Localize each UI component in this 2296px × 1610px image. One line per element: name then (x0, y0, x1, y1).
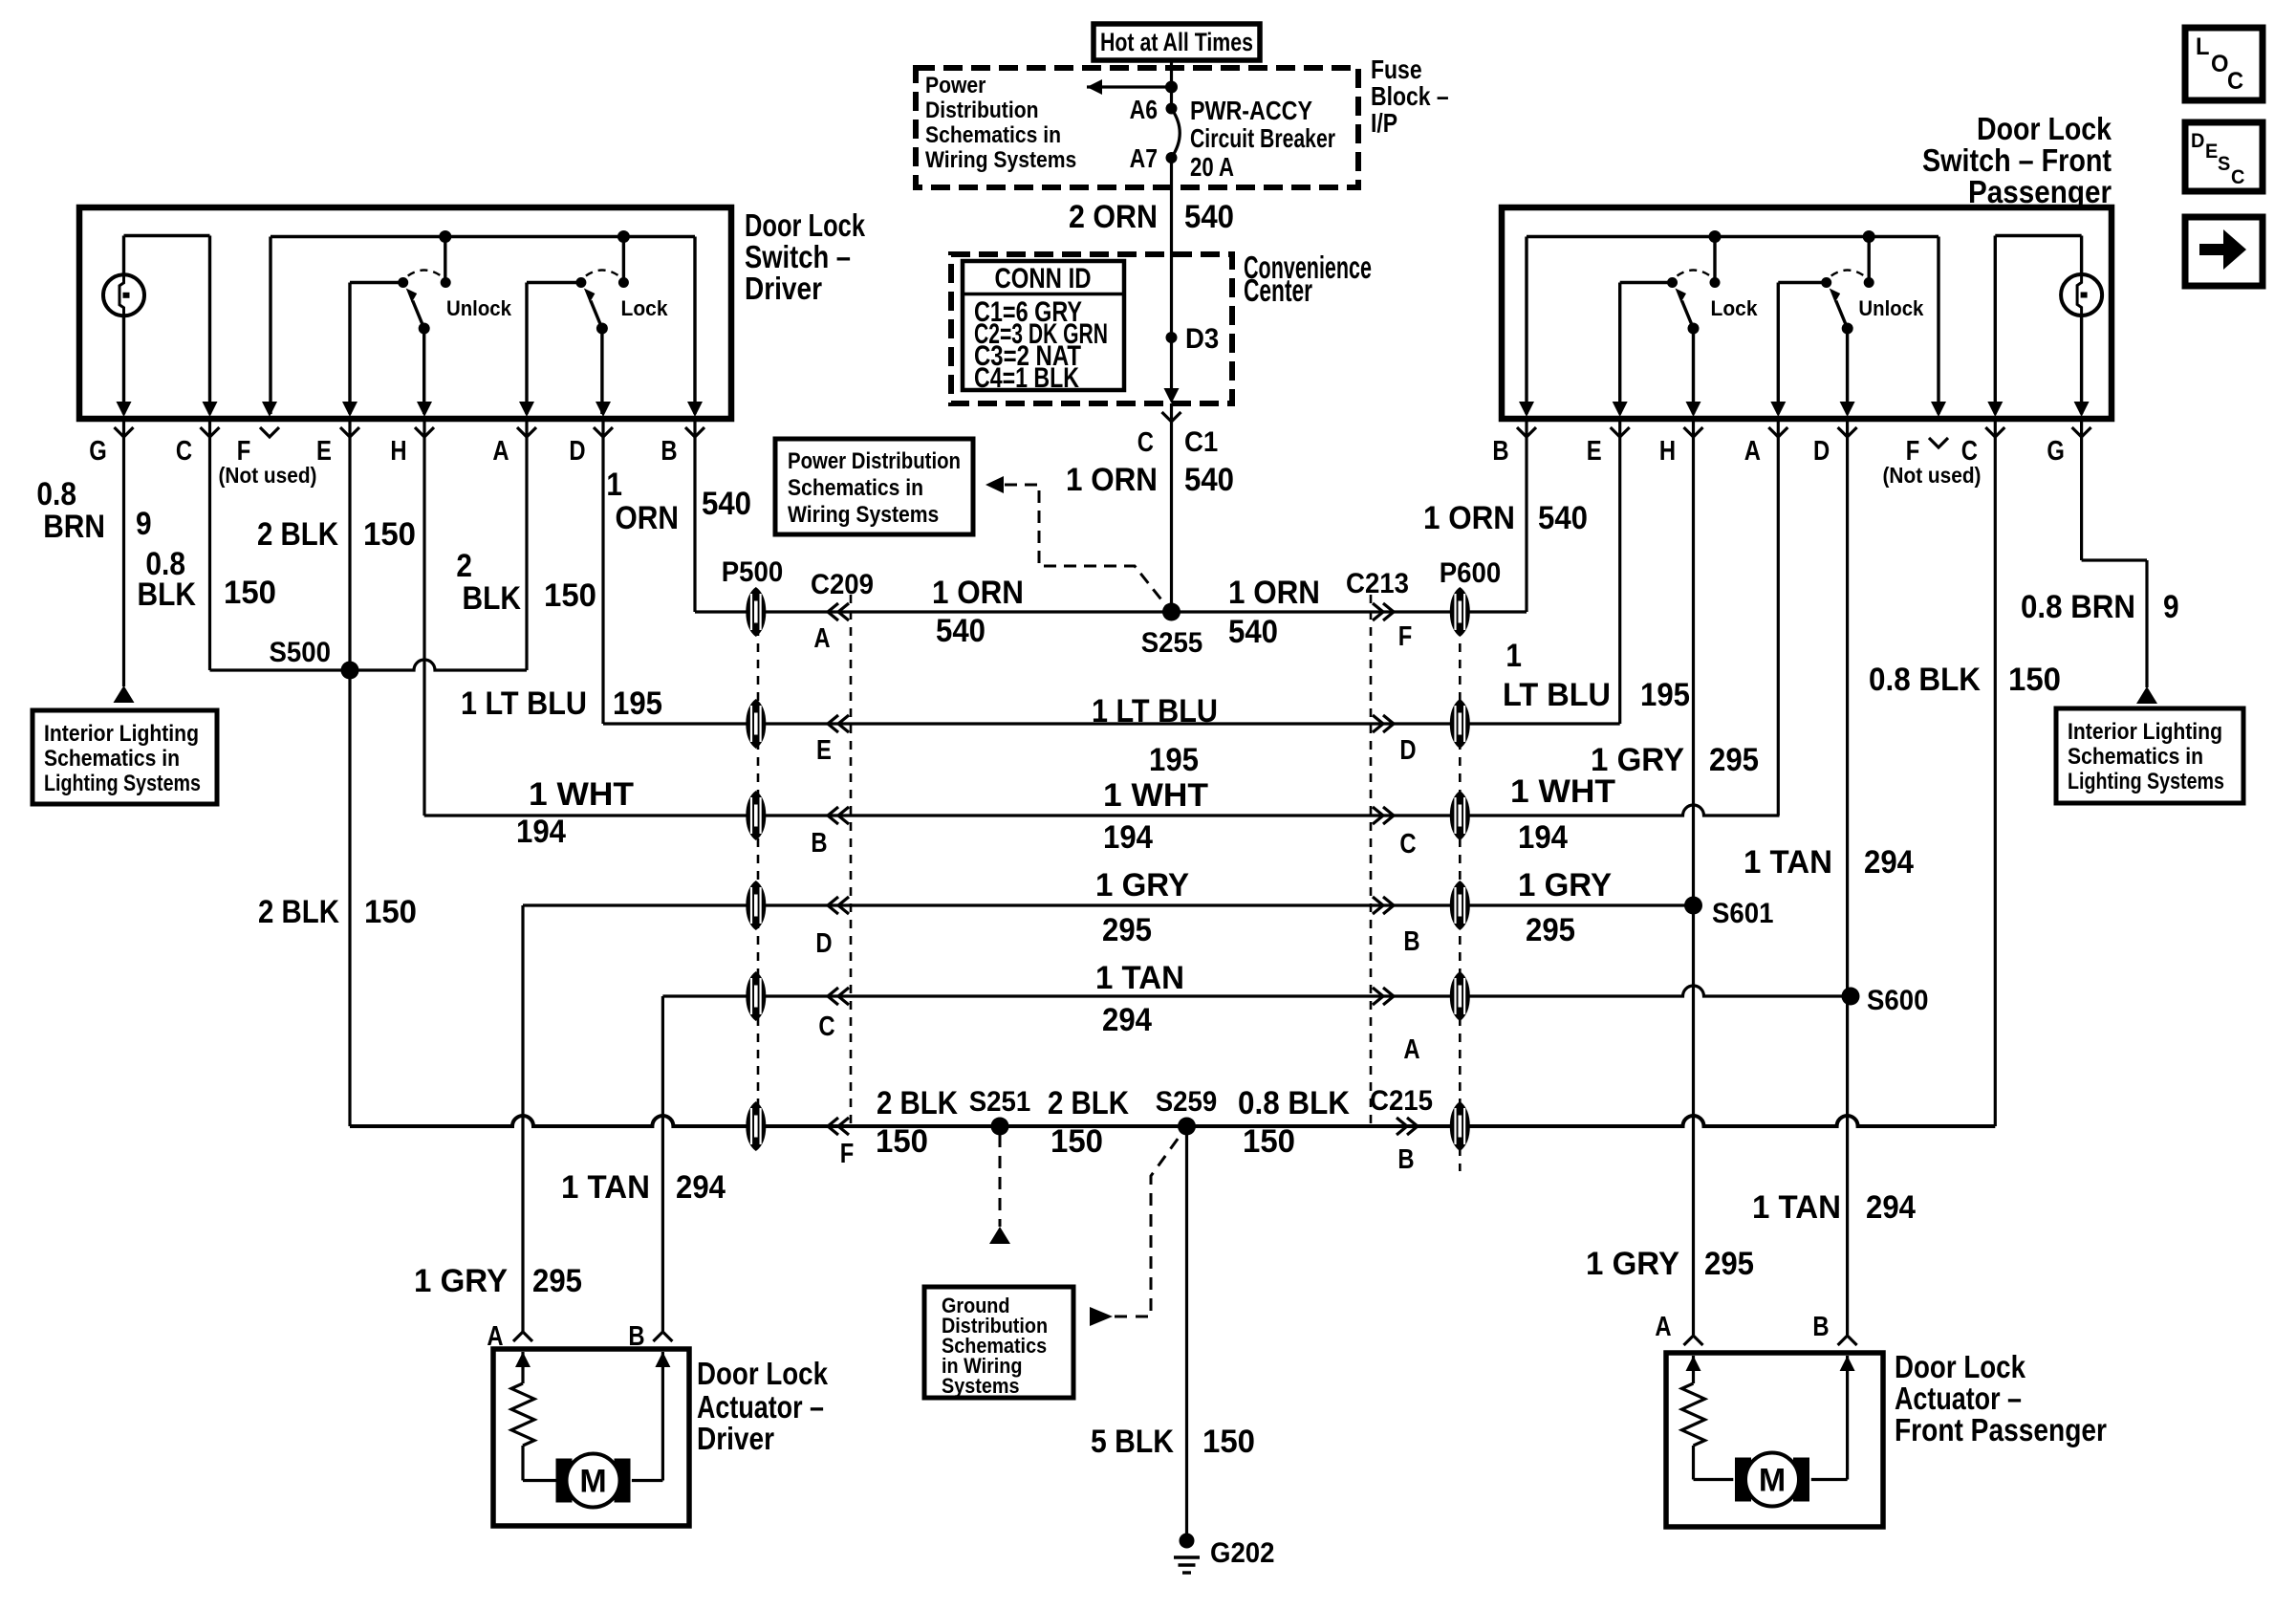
pin chevron A (517, 427, 536, 437)
C213 arrows row2 (1383, 715, 1394, 732)
wire 0.8 BRN 9 (122, 422, 125, 686)
connector P500 row6 (746, 1101, 766, 1151)
svg-text:194: 194 (516, 814, 566, 850)
svg-text:S255: S255 (1141, 627, 1203, 659)
svg-text:S600: S600 (1867, 985, 1929, 1016)
svg-text:A: A (492, 436, 509, 467)
splice S255 (1162, 603, 1180, 621)
pin chevron B actuator right (1838, 1336, 1857, 1345)
svg-text:Schematics in: Schematics in (925, 122, 1061, 148)
wire pin H down to WHT row (422, 422, 425, 816)
ground bus 2 BLK 150 (350, 1116, 1995, 1126)
wire B inside right (1846, 1356, 1849, 1480)
pin chevron C right (1985, 427, 2004, 437)
svg-text:540: 540 (1184, 462, 1234, 498)
pin arrow A inside (515, 1352, 531, 1367)
svg-text:E: E (1587, 436, 1602, 467)
svg-text:S259: S259 (1156, 1086, 1218, 1118)
pin chevron D (594, 427, 613, 437)
svg-text:E: E (316, 436, 332, 467)
svg-text:C: C (1137, 427, 1154, 458)
wire 0.8 BRN right (2080, 422, 2083, 560)
svg-text:A: A (1403, 1034, 1419, 1065)
pin arrow A driver switch (519, 402, 534, 417)
unlock switch arm right (1821, 271, 1874, 335)
wire to pin C (208, 236, 211, 415)
Power Distribution reference box (775, 439, 973, 534)
svg-text:294: 294 (1866, 1189, 1916, 1226)
pin chevron A actuator (513, 1332, 532, 1341)
svg-text:150: 150 (224, 575, 276, 611)
C209 arrows row5 (828, 988, 838, 1005)
svg-text:F: F (840, 1139, 855, 1169)
svg-text:294: 294 (1864, 844, 1914, 881)
connector P500 row3 (746, 791, 766, 840)
svg-text:C: C (176, 436, 192, 467)
svg-text:S500: S500 (270, 637, 332, 668)
triangle to ground dist ref (989, 1227, 1010, 1244)
svg-text:Schematics in: Schematics in (2068, 744, 2203, 770)
svg-text:Lock: Lock (621, 296, 669, 320)
svg-text:Hot at All Times: Hot at All Times (1100, 28, 1253, 56)
svg-text:M: M (579, 1464, 606, 1500)
pin arrow E driver switch (342, 402, 357, 417)
svg-text:Power Distribution: Power Distribution (788, 448, 961, 474)
pin chevron D right (1838, 427, 1857, 437)
pin arrow H driver switch (417, 402, 432, 417)
svg-text:540: 540 (1538, 500, 1588, 536)
svg-text:P500: P500 (722, 556, 784, 588)
svg-text:194: 194 (1103, 819, 1153, 856)
bus junction unlock right (1863, 230, 1875, 243)
svg-text:2 BLK: 2 BLK (877, 1085, 958, 1121)
svg-text:D3: D3 (1185, 323, 1219, 355)
left box internal bus (271, 235, 695, 238)
pin arrow A passenger switch (1770, 402, 1786, 417)
wire arrow to power dist (1087, 85, 1172, 88)
svg-text:H: H (390, 436, 406, 467)
pin arrow G passenger switch (2074, 402, 2090, 417)
pin chevron B right (1517, 427, 1536, 437)
S500 horizontal wire (210, 660, 528, 670)
svg-text:D: D (569, 436, 585, 467)
svg-text:A7: A7 (1130, 143, 1158, 173)
svg-text:Unlock: Unlock (446, 296, 512, 320)
lamp wire pin G (122, 236, 125, 415)
svg-text:1 ORN: 1 ORN (932, 575, 1024, 611)
svg-text:Switch – Front: Switch – Front (1922, 142, 2112, 178)
lock pivot wire right (1620, 281, 1673, 284)
lamp top wire right (1995, 234, 2081, 237)
pin arrow C passenger switch (1987, 402, 2003, 417)
C215 arrows row6 (1407, 1118, 1418, 1135)
wire to pin D right (1846, 329, 1849, 415)
drop to lock contact right (1713, 237, 1716, 283)
svg-text:1 WHT: 1 WHT (1510, 773, 1615, 810)
svg-text:PWR-ACCY: PWR-ACCY (1190, 96, 1312, 125)
svg-text:295: 295 (1526, 912, 1575, 948)
lamp wire pin G right (2080, 236, 2083, 415)
lock switch arm (575, 271, 629, 335)
svg-text:S: S (2218, 153, 2230, 175)
arrow at conv center exit (1164, 388, 1180, 403)
svg-text:C215: C215 (1370, 1085, 1433, 1117)
wire to pin E (348, 283, 351, 415)
wire 5 BLK 150 to ground (1185, 1126, 1188, 1540)
svg-text:G: G (89, 436, 107, 467)
svg-text:150: 150 (2008, 662, 2061, 698)
svg-text:E: E (2205, 141, 2218, 163)
svg-text:1 WHT: 1 WHT (529, 776, 634, 813)
svg-text:M: M (1759, 1463, 1786, 1499)
svg-text:540: 540 (936, 613, 986, 649)
svg-text:A: A (813, 623, 830, 654)
splice S600 (1842, 988, 1860, 1006)
svg-text:B: B (661, 436, 677, 467)
svg-text:Lock: Lock (1711, 296, 1759, 320)
C209 arrows row3 (828, 807, 838, 824)
svg-text:Distribution: Distribution (925, 98, 1039, 123)
svg-text:Center: Center (1244, 272, 1312, 308)
wire pin A right down (1777, 422, 1780, 816)
wire through convenience center (1170, 254, 1173, 388)
svg-text:(Not used): (Not used) (219, 463, 317, 488)
C209 arrows row1 (828, 603, 838, 620)
arrow to power distribution (1087, 79, 1102, 95)
svg-text:Driver: Driver (697, 1421, 774, 1456)
svg-text:1 ORN: 1 ORN (1423, 500, 1515, 536)
svg-text:Schematics in: Schematics in (788, 475, 923, 501)
wire to motor (523, 1479, 556, 1482)
svg-text:P600: P600 (1440, 557, 1502, 589)
wire from Hot box (1170, 60, 1173, 109)
wire pin C right up (1994, 236, 1997, 415)
drop to unlock contact (444, 237, 446, 283)
svg-text:C: C (818, 1012, 834, 1042)
svg-text:1 TAN: 1 TAN (561, 1169, 650, 1206)
drop to lock contact (622, 237, 625, 283)
CONN ID table (963, 261, 1124, 390)
wire pin E right down to LT BLU row (1618, 422, 1621, 724)
Fuse Block dashed box (916, 68, 1358, 187)
svg-text:5 BLK: 5 BLK (1091, 1424, 1174, 1460)
C213 dashed line (1370, 595, 1373, 1126)
connector P500 row1 (746, 587, 766, 637)
svg-text:BLK: BLK (138, 577, 197, 613)
wire A inside (521, 1352, 524, 1383)
svg-text:1 TAN: 1 TAN (1744, 844, 1832, 881)
bus drop to pin B (693, 237, 696, 415)
svg-text:D: D (1813, 436, 1830, 467)
wire pin D right down to S600 (1846, 422, 1849, 996)
svg-text:Actuator –: Actuator – (697, 1389, 824, 1425)
pin chevron G right (2072, 427, 2091, 437)
svg-text:D: D (1399, 735, 1416, 766)
splice S259 (1178, 1118, 1196, 1136)
resistor driver actuator (511, 1383, 534, 1446)
pin chevron F right (1929, 438, 1948, 447)
ground G202 (1174, 1534, 1200, 1574)
svg-text:BRN: BRN (43, 509, 105, 545)
svg-text:1 GRY: 1 GRY (1518, 867, 1612, 903)
wire 2 ORN 540 (1170, 158, 1173, 254)
svg-text:Door Lock: Door Lock (1895, 1349, 2026, 1384)
svg-text:C213: C213 (1346, 568, 1409, 599)
svg-text:Systems: Systems (942, 1374, 1020, 1398)
svg-text:B: B (1397, 1144, 1414, 1175)
Convenience Center dashed box (951, 254, 1232, 403)
svg-text:Fuse: Fuse (1371, 54, 1422, 84)
svg-text:Wiring Systems: Wiring Systems (788, 502, 939, 528)
splice S601 (1684, 897, 1702, 915)
svg-text:A: A (487, 1321, 503, 1352)
wire 1 ORN 540 row (695, 610, 1527, 613)
connector P600 row2 (1450, 699, 1470, 749)
wire 1 ORN 540 to S255 (1170, 403, 1173, 612)
svg-text:C: C (1399, 829, 1416, 859)
Interior Lighting ref box left (32, 710, 217, 804)
wire 0.8 BLK pin C right down (1994, 422, 1997, 1126)
svg-text:2 BLK: 2 BLK (257, 516, 338, 553)
pin arrow C driver switch (203, 402, 218, 417)
svg-text:540: 540 (702, 486, 751, 522)
svg-text:Power: Power (925, 73, 986, 98)
drop to unlock contact right (1867, 237, 1870, 283)
svg-text:1: 1 (1505, 638, 1522, 674)
C213 arrows row3 (1383, 807, 1394, 824)
C209 arrows row2 (828, 715, 838, 732)
C209 arrows row4 (828, 897, 838, 914)
pin arrow B driver switch (687, 402, 703, 417)
svg-text:295: 295 (532, 1263, 582, 1299)
bus drop to pin F (269, 237, 271, 415)
pin chevron C (201, 427, 220, 437)
wire B inside (661, 1352, 664, 1481)
pin chevron B actuator (653, 1332, 672, 1341)
svg-text:195: 195 (613, 685, 662, 722)
svg-text:150: 150 (544, 577, 596, 614)
svg-text:BLK: BLK (463, 580, 522, 617)
wire to motor right (1694, 1478, 1734, 1481)
svg-text:H: H (1659, 436, 1676, 467)
connector P600 row3 (1450, 791, 1470, 840)
svg-text:195: 195 (1640, 677, 1690, 713)
svg-text:G202: G202 (1210, 1537, 1275, 1569)
wire 2 BLK 150 down to ground bus (348, 670, 351, 1126)
pin arrow B inside (655, 1352, 670, 1367)
svg-text:B: B (1812, 1312, 1829, 1342)
splice S251 (991, 1118, 1009, 1136)
pin arrow F passenger switch (1931, 402, 1946, 417)
svg-text:1 GRY: 1 GRY (1095, 867, 1189, 903)
terminal A7 (1166, 152, 1178, 163)
pin arrow B inside right (1840, 1356, 1855, 1371)
svg-text:294: 294 (676, 1169, 726, 1206)
svg-text:I/P: I/P (1371, 108, 1397, 138)
pin arrow D passenger switch (1840, 402, 1855, 417)
svg-text:Lighting Systems: Lighting Systems (2068, 769, 2224, 794)
lock pivot wire (527, 281, 581, 284)
svg-text:F: F (1398, 621, 1413, 652)
wire 1 TAN 294 row (662, 986, 1851, 996)
wire pin D down (601, 422, 604, 724)
pin arrow H passenger switch (1686, 402, 1701, 417)
pin arrow G driver switch (117, 402, 132, 417)
arrow box (2185, 217, 2263, 286)
svg-text:2 BLK: 2 BLK (1048, 1085, 1129, 1121)
svg-text:B: B (811, 828, 827, 859)
connector P500 row5 (746, 971, 766, 1021)
svg-text:194: 194 (1518, 819, 1568, 856)
Hot at All Times box (1094, 24, 1260, 60)
svg-text:Block –: Block – (1371, 81, 1449, 111)
wire to pin A (525, 283, 528, 415)
wire 1 GRY 295 to passenger actuator (1692, 905, 1695, 1335)
svg-text:0.8: 0.8 (36, 476, 76, 512)
svg-text:9: 9 (136, 506, 152, 542)
svg-text:9: 9 (2163, 589, 2179, 625)
svg-text:L: L (2196, 33, 2210, 60)
C213 arrows row4 (1383, 897, 1394, 914)
bus drop to pin F right (1937, 237, 1939, 415)
dashed path to S255 (1005, 485, 1168, 608)
svg-text:Circuit Breaker: Circuit Breaker (1190, 123, 1335, 153)
Door Lock Switch Driver box (79, 207, 731, 419)
svg-text:150: 150 (364, 894, 417, 930)
wire pin H right down to S601 (1692, 422, 1695, 905)
svg-text:1 LT BLU: 1 LT BLU (461, 685, 587, 722)
terminal A6 (1166, 103, 1178, 115)
svg-text:(Not used): (Not used) (1883, 463, 1982, 488)
unlock pivot wire right (1778, 281, 1826, 284)
svg-text:D: D (2191, 130, 2204, 152)
svg-text:295: 295 (1709, 742, 1759, 778)
svg-text:G: G (2047, 436, 2065, 467)
svg-text:A: A (1744, 436, 1761, 467)
motor M passenger (1735, 1453, 1809, 1507)
svg-text:295: 295 (1704, 1246, 1754, 1282)
svg-text:1 GRY: 1 GRY (1586, 1246, 1679, 1282)
Interior Lighting ref box right (2056, 708, 2243, 803)
svg-text:1 LT BLU: 1 LT BLU (1092, 693, 1218, 729)
svg-text:Switch –: Switch – (745, 239, 851, 274)
svg-text:150: 150 (1051, 1123, 1103, 1160)
svg-text:S601: S601 (1712, 898, 1774, 929)
pin chevron B (685, 427, 704, 437)
svg-text:Interior Lighting: Interior Lighting (2068, 719, 2222, 745)
pin chevron E (340, 427, 359, 437)
lock switch arm right (1667, 271, 1721, 335)
wire pin B right down (1525, 422, 1527, 612)
svg-text:1 TAN: 1 TAN (1095, 960, 1184, 996)
wire 1 TAN 294 to driver actuator (661, 996, 664, 1334)
wire pin C down (208, 422, 211, 670)
terminal D3 (1166, 332, 1178, 343)
LOC box (2185, 28, 2263, 100)
svg-text:1 ORN: 1 ORN (1066, 462, 1158, 498)
triangle to interior lighting ref (114, 685, 135, 703)
wire pin E down to S500 (348, 422, 351, 670)
wire to pin H (422, 329, 425, 415)
wire pin B down (693, 422, 696, 612)
circuit breaker PWR-ACCY 20A (1172, 109, 1180, 159)
svg-text:540: 540 (1184, 199, 1234, 235)
pin arrow D driver switch (596, 402, 611, 417)
svg-text:B: B (1492, 436, 1508, 467)
svg-text:0.8 BLK: 0.8 BLK (1869, 662, 1981, 698)
pin chevron H (415, 427, 434, 437)
svg-text:Actuator –: Actuator – (1895, 1381, 2022, 1416)
arrow from ground dist box (1090, 1307, 1113, 1326)
svg-text:D: D (815, 928, 832, 959)
svg-text:295: 295 (1102, 912, 1152, 948)
DESC box (2185, 122, 2263, 191)
pin chevron F (260, 427, 279, 437)
Door Lock Switch Front Passenger box (1502, 207, 2112, 419)
svg-text:150: 150 (876, 1123, 928, 1160)
resistor passenger actuator (1682, 1383, 1705, 1446)
wire to pin H right (1692, 329, 1695, 415)
svg-text:E: E (816, 735, 832, 766)
svg-text:Door Lock: Door Lock (1977, 111, 2112, 146)
svg-text:C: C (2227, 68, 2243, 95)
wire 1 LT BLU 195 row (603, 722, 1620, 725)
svg-text:C1: C1 (1184, 426, 1218, 458)
svg-text:Schematics in: Schematics in (44, 746, 180, 772)
connector P600 row6 (1450, 1101, 1470, 1151)
motor M driver (556, 1454, 631, 1508)
svg-text:ORN: ORN (616, 500, 680, 536)
svg-text:540: 540 (1228, 614, 1278, 650)
arrow to power dist box (986, 476, 1004, 493)
connector P600 row5 (1450, 971, 1470, 1021)
splice S500 (341, 662, 359, 680)
wire to pin E right (1618, 283, 1621, 415)
junction on feed wire (1165, 81, 1178, 94)
Ground Distribution ref box (924, 1287, 1073, 1398)
right arrow symbol (2199, 244, 2223, 255)
svg-text:B: B (628, 1321, 644, 1352)
motor to B wire (632, 1479, 663, 1482)
svg-text:1 TAN: 1 TAN (1752, 1189, 1841, 1226)
unlock pivot wire (350, 281, 403, 284)
bus drop to pin B right (1525, 237, 1527, 415)
motor to B wire right (1811, 1478, 1848, 1481)
svg-text:A6: A6 (1130, 95, 1158, 124)
svg-text:Unlock: Unlock (1858, 296, 1924, 320)
Door Lock Actuator Front Passenger box (1666, 1353, 1883, 1527)
P600 dashed line (1459, 595, 1462, 1171)
svg-text:1 GRY: 1 GRY (414, 1263, 508, 1299)
connector P500 row2 (746, 699, 766, 749)
lamp top wire (124, 234, 210, 237)
pin chevron E right (1611, 427, 1630, 437)
svg-text:O: O (2211, 51, 2229, 77)
svg-text:2: 2 (456, 548, 472, 584)
connector P600 row1 (1450, 587, 1470, 637)
svg-text:Lighting Systems: Lighting Systems (44, 771, 201, 796)
svg-text:150: 150 (1202, 1424, 1255, 1460)
connector P500 row4 (746, 881, 766, 930)
triangle to interior lighting ref right (2136, 686, 2157, 704)
svg-text:150: 150 (363, 516, 416, 553)
svg-text:Door Lock: Door Lock (745, 207, 865, 243)
svg-text:Driver: Driver (745, 271, 822, 306)
pin arrow A inside right (1686, 1356, 1701, 1371)
dashed path to S259 (1115, 1131, 1183, 1316)
svg-text:2 BLK: 2 BLK (258, 894, 339, 930)
svg-text:1: 1 (606, 467, 622, 503)
